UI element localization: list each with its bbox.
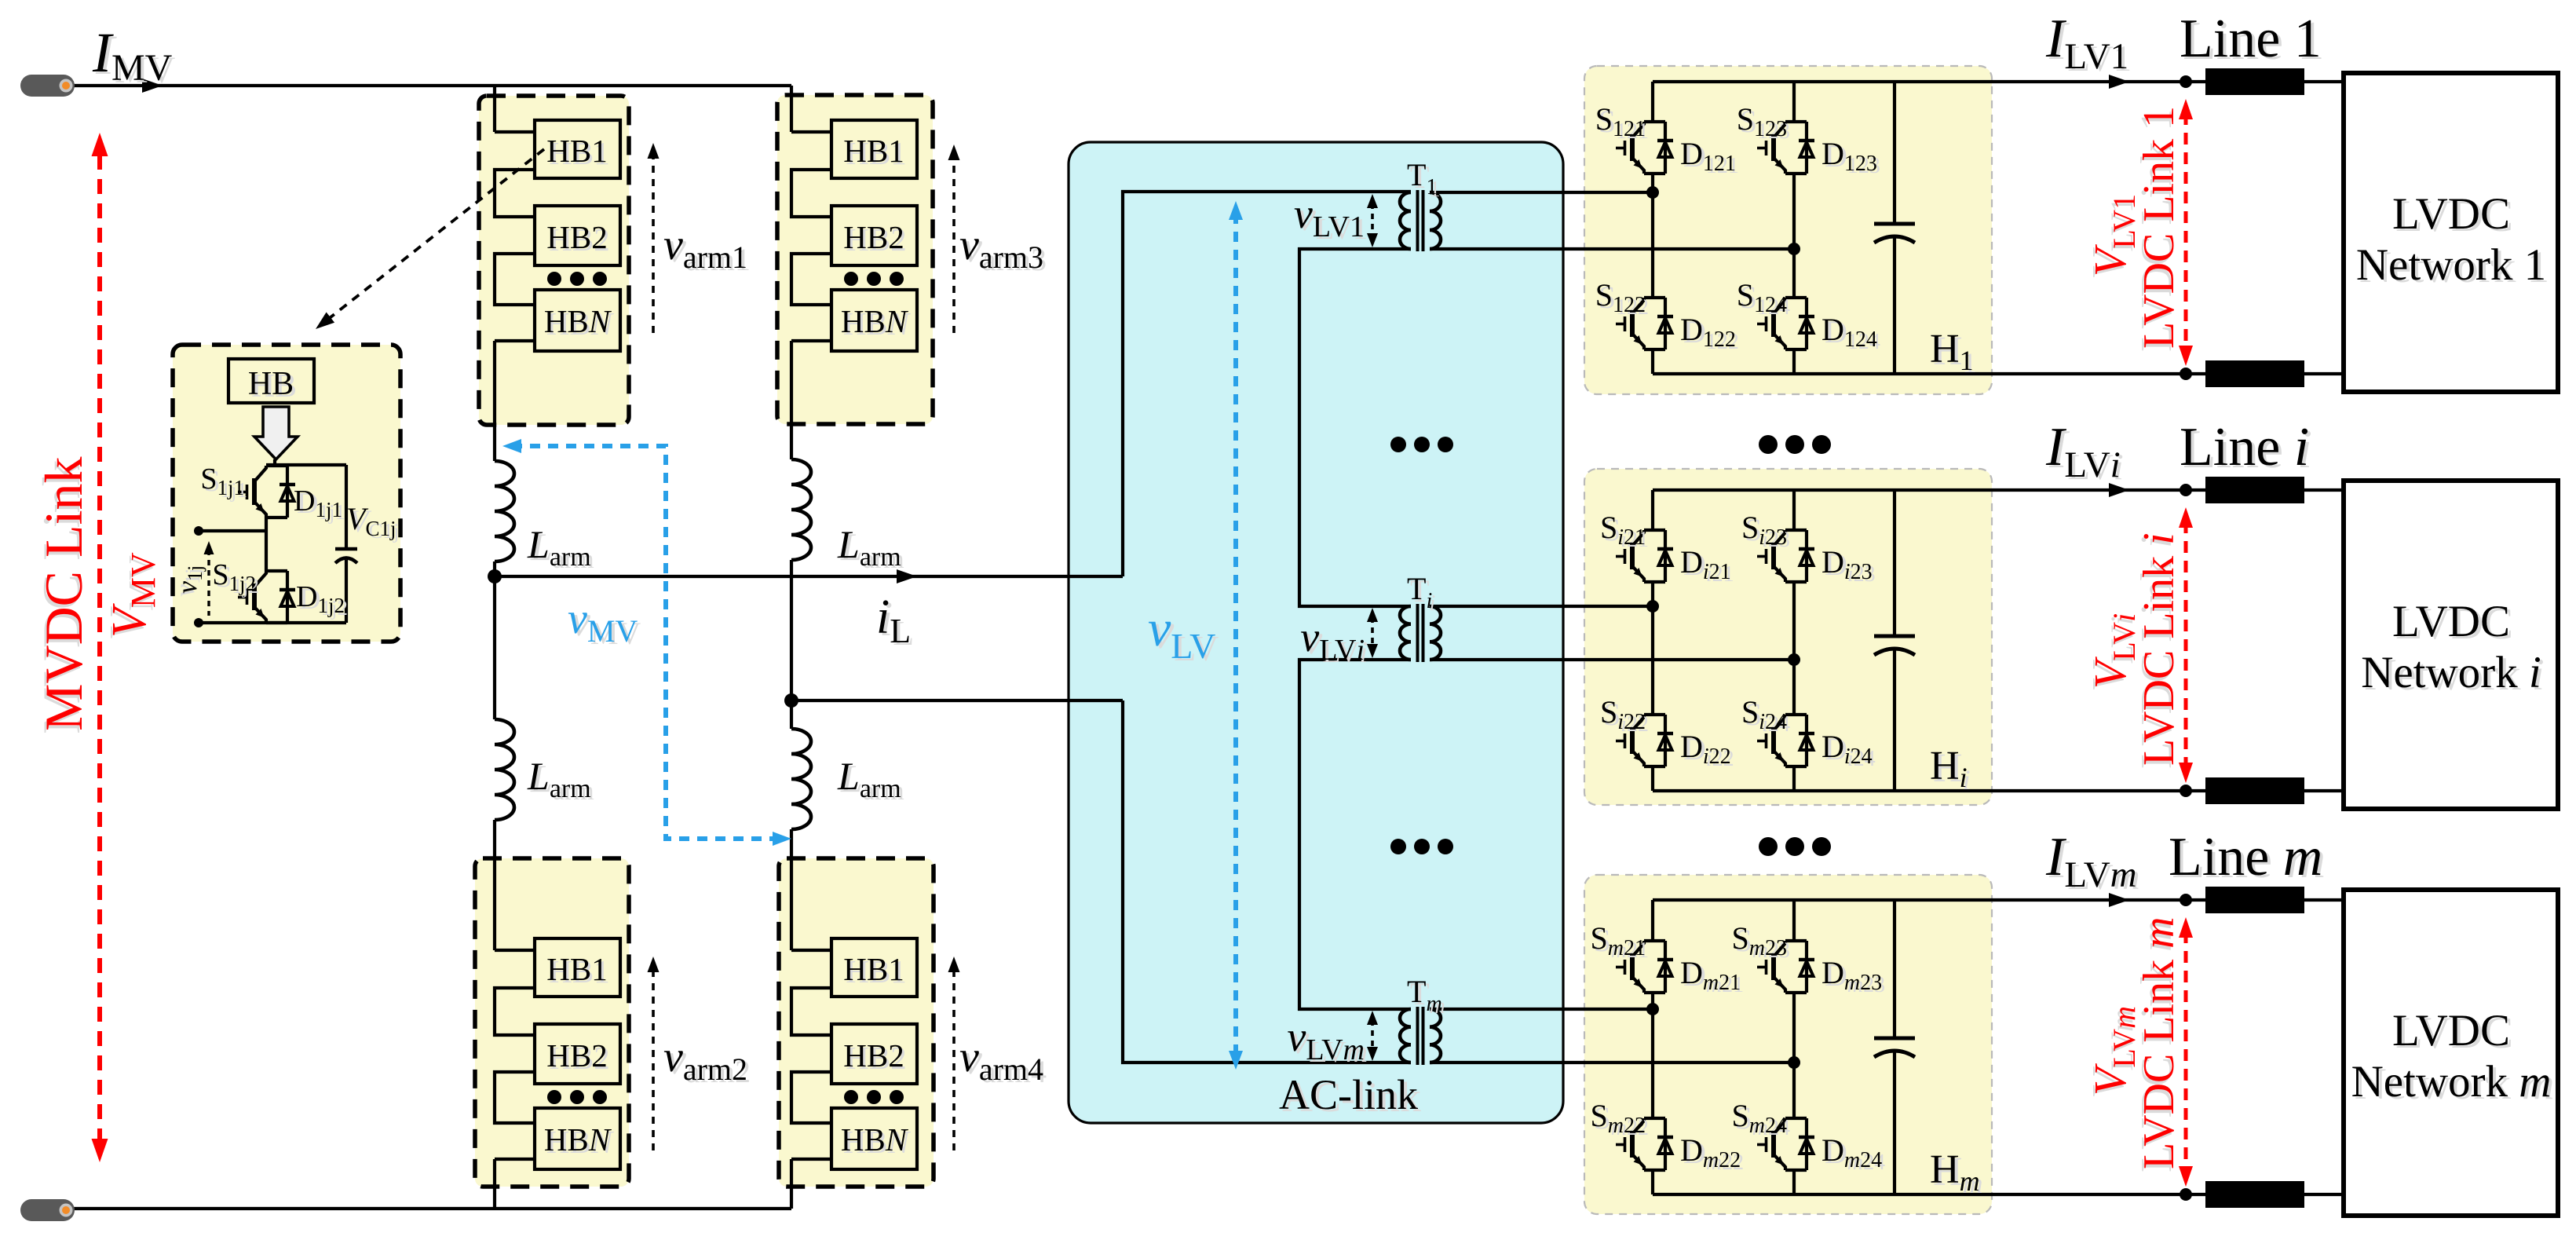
svg-text:HB: HB	[248, 366, 294, 402]
svg-text:LVDC Link i: LVDC Link i	[2135, 532, 2183, 766]
svg-text:AC-link: AC-link	[1279, 1071, 1418, 1118]
svg-text:Line i: Line i	[2180, 417, 2309, 477]
svg-text:Network 1: Network 1	[2356, 240, 2546, 290]
svg-text:LVDC Link 1: LVDC Link 1	[2135, 106, 2183, 349]
svg-text:Network i: Network i	[2361, 648, 2541, 697]
svg-text:LVDC Link m: LVDC Link m	[2135, 916, 2183, 1169]
svg-text:Line m: Line m	[2169, 827, 2322, 887]
svg-text:LVDC: LVDC	[2392, 597, 2510, 646]
svg-text:LVDC: LVDC	[2392, 189, 2510, 239]
svg-text:MVDC Link: MVDC Link	[34, 457, 93, 731]
svg-text:Line 1: Line 1	[2180, 9, 2322, 69]
svg-text:Network m: Network m	[2351, 1057, 2552, 1106]
svg-text:LVDC: LVDC	[2392, 1006, 2510, 1055]
